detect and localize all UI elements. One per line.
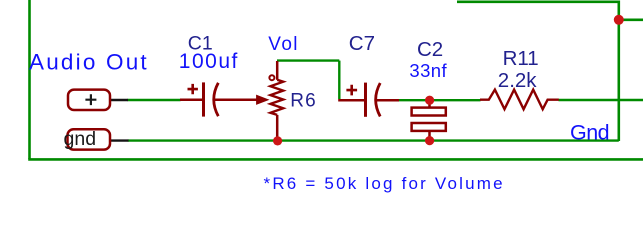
pin lead port + [110, 99, 128, 101]
svg-text:*R6 = 50k log for Volume: *R6 = 50k log for Volume [264, 174, 505, 193]
svg-text:R6: R6 [290, 90, 317, 111]
node junction R6 bottom [273, 136, 282, 145]
wiper arrow into R6 [257, 96, 268, 104]
svg-text:Vol: Vol [268, 34, 299, 55]
svg-text:Audio Out: Audio Out [29, 50, 149, 75]
wire branch to right edge at node [619, 18, 643, 21]
wire bottom horizontal net [28, 158, 643, 161]
wire Vol net drop to C7 [338, 61, 340, 99]
svg-text:Gnd: Gnd [570, 121, 609, 145]
svg-text:gnd: gnd [64, 128, 97, 150]
node junction top right [614, 15, 624, 25]
svg-text:33nf: 33nf [409, 60, 447, 81]
svg-text:R11: R11 [503, 47, 539, 70]
svg-text:2.2k: 2.2k [498, 69, 537, 92]
wire port+ to C1 [128, 99, 181, 101]
wire Vol net horizontal [277, 59, 339, 61]
capacitor C2 (33nf) [412, 100, 446, 140]
port + (Audio Out plus terminal) [68, 90, 110, 110]
wire C7 to R11 [399, 99, 481, 101]
node junction C2 top [425, 96, 434, 105]
svg-text:C2: C2 [417, 38, 443, 61]
wire top horizontal entering from top edge [457, 0, 619, 3]
capacitor C1 (polarized 100uf) [180, 82, 258, 116]
pin lead port gnd [110, 139, 129, 141]
wire R11 to right edge [559, 99, 643, 101]
wire right vertical [617, 1, 620, 142]
wire left vertical bus [28, 0, 31, 159]
svg-text:100uf: 100uf [179, 50, 239, 73]
port gnd (Audio Out ground terminal) [64, 128, 111, 150]
svg-text:C7: C7 [349, 32, 375, 55]
node junction C2 bottom [425, 136, 434, 145]
capacitor C7 (polarized) [338, 83, 399, 117]
resistor R11 (2.2k) [480, 90, 559, 110]
potentiometer R6 [269, 61, 283, 141]
wire gnd net horizontal [128, 139, 619, 141]
